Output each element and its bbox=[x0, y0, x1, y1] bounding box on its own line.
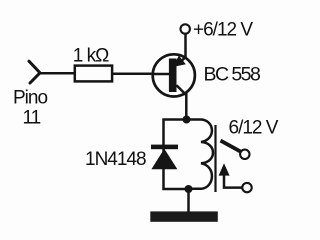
node A collector junction bbox=[183, 116, 191, 124]
svg-text:1 kΩ: 1 kΩ bbox=[73, 45, 109, 66]
svg-text:+6/12 V: +6/12 V bbox=[193, 20, 253, 41]
wire emitter to +V terminal bbox=[184, 34, 187, 59]
diode D1 1N4148 bbox=[151, 145, 178, 170]
svg-text:6/12 V: 6/12 V bbox=[229, 117, 279, 138]
wire collector to node A bbox=[185, 94, 188, 121]
ground bbox=[150, 211, 218, 221]
relay coil K1 bbox=[187, 120, 214, 189]
node B bottom junction bbox=[185, 185, 193, 193]
svg-text:1N4148: 1N4148 bbox=[85, 149, 146, 170]
svg-text:BC 558: BC 558 bbox=[204, 63, 260, 85]
input connector Pino 11 bbox=[29, 61, 40, 83]
wire resistor to base bbox=[112, 72, 153, 75]
relay core line bbox=[214, 125, 216, 192]
relay switch contact bbox=[219, 141, 252, 193]
wire node B to ground bbox=[187, 189, 190, 212]
transistor Q1 BC 558 (PNP) bbox=[153, 54, 195, 96]
wire parallel-section left loop (diode branch) bbox=[164, 120, 189, 190]
wire input to resistor bbox=[40, 72, 76, 75]
svg-text:Pino: Pino bbox=[13, 88, 47, 109]
supply terminal +6/12 V bbox=[181, 24, 190, 33]
svg-text:11: 11 bbox=[23, 108, 41, 129]
resistor R1 1 kOhm bbox=[75, 66, 112, 82]
